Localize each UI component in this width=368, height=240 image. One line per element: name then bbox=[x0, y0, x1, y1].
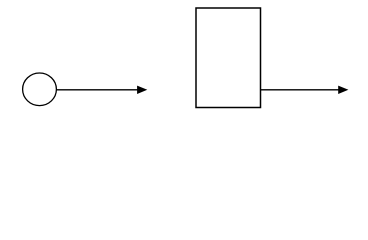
arrowhead: left arrow bbox=[137, 86, 147, 94]
arrowhead: right arrow bbox=[338, 86, 348, 94]
node: circle terminal bbox=[23, 73, 57, 106]
block: rectangle bbox=[196, 8, 261, 108]
wire: rectangle to arrowhead bbox=[261, 89, 340, 91]
wire: circle to arrowhead bbox=[57, 89, 139, 91]
